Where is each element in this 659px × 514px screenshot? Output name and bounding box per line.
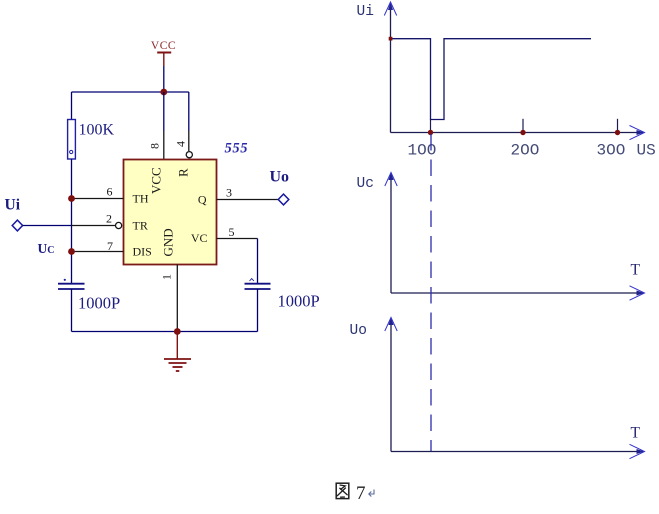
svg-text:Uc: Uc <box>357 176 374 192</box>
svg-text:6: 6 <box>107 185 113 199</box>
op-amp U1 555 body <box>124 160 217 265</box>
svg-text:TH: TH <box>133 192 149 206</box>
pin 7 DIS stub <box>72 251 124 253</box>
capacitor C1 left 1000P <box>58 279 85 289</box>
node 300 <box>615 130 620 135</box>
svg-text:VCC: VCC <box>151 40 176 52</box>
svg-text:VC: VC <box>191 231 208 245</box>
wire VC down to capacitor <box>257 239 259 284</box>
svg-text:2OO: 2OO <box>511 142 540 160</box>
svg-text:VCC: VCC <box>149 167 164 194</box>
terminal Ui diamond <box>12 220 22 231</box>
figure caption 图 7 <box>336 483 374 504</box>
x axis graph1 <box>391 132 641 134</box>
svg-text:DIS: DIS <box>133 245 152 259</box>
pin 5 VC stub <box>217 238 258 240</box>
svg-text:T: T <box>631 262 641 279</box>
tick 100 <box>430 120 432 133</box>
svg-text:Uo: Uo <box>350 323 367 339</box>
node 100 <box>428 130 433 135</box>
svg-text:1: 1 <box>160 274 174 280</box>
svg-text:TR: TR <box>133 219 148 233</box>
y axis graph2 <box>390 174 392 293</box>
wire VCC stem <box>163 66 165 92</box>
wire pin4 vertical <box>188 92 190 131</box>
svg-text:T: T <box>631 425 641 442</box>
svg-text:Ui: Ui <box>357 4 374 20</box>
x axis graph2 <box>391 292 640 294</box>
junction VCC node <box>160 89 167 96</box>
svg-text:1OO: 1OO <box>408 142 437 160</box>
svg-text:8: 8 <box>148 143 162 149</box>
svg-text:7: 7 <box>107 239 113 253</box>
svg-text:7: 7 <box>356 483 366 504</box>
svg-text:2: 2 <box>106 212 112 226</box>
terminal Uo diamond <box>278 194 289 205</box>
wire left vertical upper <box>71 92 73 120</box>
resistor R 100K <box>68 120 76 160</box>
ground <box>164 332 191 372</box>
pin 3 Q stub <box>217 199 279 201</box>
junction TH node <box>68 195 75 202</box>
svg-text:4: 4 <box>174 141 188 147</box>
wire below left capacitor <box>71 289 73 332</box>
waveform Ui <box>391 39 592 120</box>
capacitor C2 right 1000P <box>245 279 271 289</box>
svg-text:Ui: Ui <box>5 197 21 214</box>
svg-text:1000P: 1000P <box>278 292 320 311</box>
x axis graph3 <box>391 451 640 453</box>
wire pin8 vertical <box>163 92 165 131</box>
svg-text:Uo: Uo <box>270 169 290 186</box>
svg-text:US: US <box>637 142 656 160</box>
svg-text:Q: Q <box>198 193 207 207</box>
y axis graph1 <box>390 4 392 133</box>
wire Ui to TR <box>23 225 72 227</box>
pin 2 TR stub <box>72 225 116 227</box>
tick 200 <box>522 119 524 133</box>
pin 6 TH stub <box>72 198 124 200</box>
pin 4 inversion bubble <box>186 152 192 158</box>
marker waveform start <box>389 37 393 41</box>
pin 2 inversion bubble <box>116 222 122 228</box>
wire bottom horizontal <box>72 331 258 333</box>
junction DIS node <box>68 248 75 255</box>
svg-text:R: R <box>176 168 191 177</box>
wire top horizontal <box>72 91 189 93</box>
tick 300 <box>617 119 619 133</box>
wire left vertical lower <box>71 159 73 283</box>
svg-text:3OO: 3OO <box>597 142 626 160</box>
pin 4 stub <box>188 131 190 151</box>
y axis graph3 <box>390 319 392 452</box>
svg-text:GND: GND <box>161 228 176 256</box>
pin 8 stub <box>163 131 165 160</box>
svg-text:5: 5 <box>229 225 235 239</box>
svg-text:100K: 100K <box>79 122 115 139</box>
svg-text:555: 555 <box>225 141 249 157</box>
wire below right capacitor <box>257 289 259 332</box>
pin 1 GND stub <box>176 265 178 332</box>
power symbol VCC <box>151 40 176 66</box>
dashed timing line t=100 <box>430 134 432 451</box>
junction ground node <box>174 328 181 335</box>
svg-text:1000P: 1000P <box>78 294 120 313</box>
svg-text:3: 3 <box>226 186 232 200</box>
node 200 <box>520 130 525 135</box>
